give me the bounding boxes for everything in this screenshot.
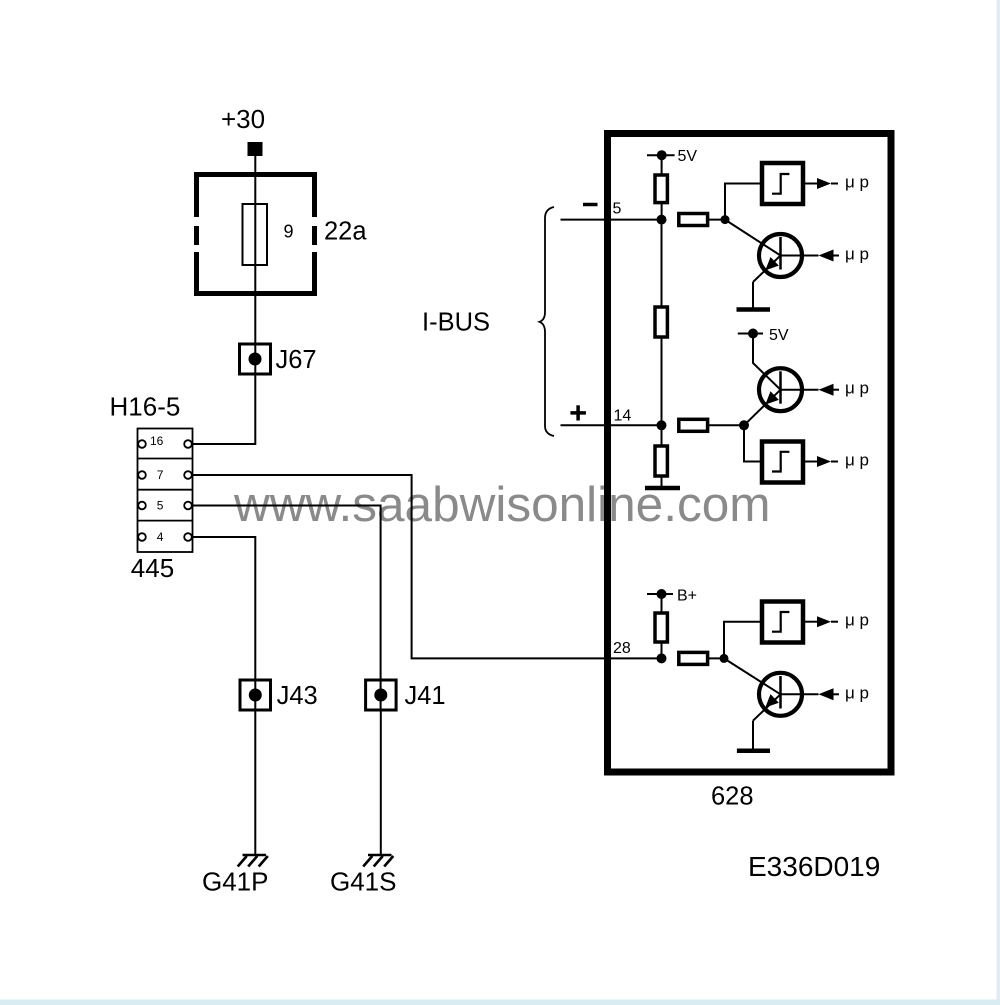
schmitt 3 output arrow xyxy=(817,616,831,627)
svg-text:H16-5: H16-5 xyxy=(110,392,181,422)
Q1 base wire to microprocessor xyxy=(781,255,819,257)
Q3 arrow tail xyxy=(833,693,840,695)
svg-text:5: 5 xyxy=(157,499,164,513)
svg-text:14: 14 xyxy=(614,408,632,425)
ground G41S xyxy=(363,855,393,867)
plus sign (I-BUS positive) xyxy=(570,405,586,420)
svg-text:μ p: μ p xyxy=(845,173,869,192)
svg-text:I-BUS: I-BUS xyxy=(422,309,490,337)
page edge tint right xyxy=(997,0,1000,1005)
Q3 base wire to microprocessor xyxy=(781,693,819,695)
svg-text:μ p: μ p xyxy=(845,245,869,264)
minus sign (I-BUS negative) xyxy=(583,203,598,207)
schmitt 2 arrow tail xyxy=(831,461,838,463)
Q1 arrow tail xyxy=(833,255,840,257)
svg-text:16: 16 xyxy=(150,434,164,448)
ground G41P xyxy=(238,855,268,867)
schmitt trigger U3 xyxy=(762,602,803,643)
ECU box 628 xyxy=(608,134,892,773)
svg-text:445: 445 xyxy=(131,553,174,583)
connector H16-5 block xyxy=(138,429,193,553)
junction dot (line 28) xyxy=(720,654,729,663)
wire pin 5 to J41 xyxy=(192,506,381,711)
wire pin 7 to pin 28 of 628 xyxy=(192,475,662,658)
pin 5 circles xyxy=(138,502,192,510)
svg-text:5: 5 xyxy=(613,201,622,218)
series resistor line 28 xyxy=(679,652,708,664)
resistor (between line 5 and line 14) xyxy=(655,307,667,337)
wire node 14 down to ground xyxy=(661,425,663,488)
wire I-BUS plus line into pin 14 xyxy=(561,424,662,426)
B+ supply node xyxy=(647,589,673,599)
svg-text:μ p: μ p xyxy=(845,451,869,470)
wire junction to schmitt trigger 1 xyxy=(725,184,762,220)
series resistor line 14 xyxy=(679,419,708,431)
svg-text:J43: J43 xyxy=(277,682,318,710)
Q3 emitter wire to ground xyxy=(752,721,754,749)
series resistor line 5 xyxy=(679,214,708,226)
wire B+ to node 28 xyxy=(661,594,663,658)
I-BUS brace xyxy=(540,207,555,436)
svg-text:5V: 5V xyxy=(769,327,789,344)
fuse 9 (element inside 22a) xyxy=(243,204,268,265)
schmitt trigger U2 xyxy=(762,442,803,483)
resistor (pull-up on line 5) xyxy=(655,175,667,203)
junction dot (line 5) xyxy=(721,215,730,224)
wire J43 to ground G41P xyxy=(254,710,256,855)
wire J67 to pin 16 xyxy=(192,374,255,444)
junction dot (line 14) xyxy=(739,420,749,430)
wire junction to schmitt trigger 3 xyxy=(724,622,762,659)
svg-text:μ p: μ p xyxy=(845,379,869,398)
pin 4 circles xyxy=(138,533,192,541)
ground (Q1 emitter) xyxy=(737,307,771,312)
transistor Q1 xyxy=(725,220,802,282)
transistor Q2 xyxy=(744,368,802,425)
component box 22a (dashed enclosure) xyxy=(194,172,317,296)
Q1 emitter wire to ground xyxy=(752,282,754,308)
svg-text:G41P: G41P xyxy=(202,867,269,897)
svg-text:4: 4 xyxy=(157,530,164,544)
svg-text:22a: 22a xyxy=(324,218,367,246)
Q2 base arrow (from microprocessor) xyxy=(819,384,834,396)
svg-text:G41S: G41S xyxy=(330,867,397,897)
transistor Q3 xyxy=(724,658,802,720)
schmitt 1 output wire xyxy=(803,183,817,185)
pin 16 circles xyxy=(138,440,192,448)
5V supply node (middle) xyxy=(738,329,763,339)
Q3 base arrow (from microprocessor) xyxy=(819,688,834,700)
svg-text:+30: +30 xyxy=(221,104,265,134)
svg-text:μ p: μ p xyxy=(845,683,869,702)
resistor (pull-up on line 28) xyxy=(655,613,667,642)
connector J67 xyxy=(240,344,271,374)
page edge tint bottom xyxy=(0,1000,1000,1005)
schmitt trigger U1 xyxy=(762,163,803,204)
5V supply node (top) xyxy=(647,150,675,160)
svg-text:9: 9 xyxy=(284,222,294,242)
connector J43 xyxy=(240,680,271,710)
wire through fuse to J67 xyxy=(254,265,256,374)
ground (line 14 pull-down) xyxy=(645,486,680,491)
wire pin 4 to J43 xyxy=(192,537,255,710)
svg-text:5V: 5V xyxy=(678,148,698,165)
schmitt 2 output arrow xyxy=(817,456,831,467)
svg-text:J67: J67 xyxy=(276,346,317,374)
wire resistor to junction (line 5) xyxy=(708,219,725,221)
Q2 arrow tail xyxy=(833,389,840,391)
wire J41 to ground G41S xyxy=(380,710,382,855)
wire 5V to node 5 xyxy=(661,155,663,219)
svg-text:E336D019: E336D019 xyxy=(748,851,880,882)
node dot line 5 xyxy=(657,215,667,225)
wire I-BUS minus line into pin 5 xyxy=(561,219,662,221)
svg-text:μ p: μ p xyxy=(845,611,869,630)
svg-text:J41: J41 xyxy=(405,682,446,710)
svg-text:7: 7 xyxy=(157,468,164,482)
schmitt 3 arrow tail xyxy=(831,621,838,623)
Q2 base wire to microprocessor xyxy=(781,389,819,391)
schmitt 1 output arrow xyxy=(817,178,831,189)
schmitt 2 output wire xyxy=(803,461,817,463)
wire from +30 terminal to fuse box xyxy=(254,156,256,204)
wire junction to schmitt trigger 2 xyxy=(744,425,762,461)
node dot line 14 xyxy=(657,420,667,430)
resistor (pull-down on line 14) xyxy=(655,446,667,476)
pin 7 circles xyxy=(138,471,192,479)
wire 5V to transistor Q2 collector xyxy=(753,334,781,390)
schmitt 1 arrow tail xyxy=(831,183,838,185)
wire node 5 to node 14 xyxy=(661,220,663,426)
connector J41 xyxy=(366,680,397,710)
svg-text:28: 28 xyxy=(613,640,631,657)
Q1 base arrow (from microprocessor) xyxy=(819,250,834,262)
schmitt 3 output wire xyxy=(803,621,817,623)
node +30 terminal square xyxy=(248,142,263,156)
node dot line 28 xyxy=(657,653,667,663)
svg-text:628: 628 xyxy=(711,783,754,811)
wire resistor to junction (line 14) xyxy=(708,424,744,426)
svg-text:B+: B+ xyxy=(677,588,697,605)
wire resistor to junction (line 28) xyxy=(708,657,724,659)
ground (Q3 emitter) xyxy=(737,748,770,753)
